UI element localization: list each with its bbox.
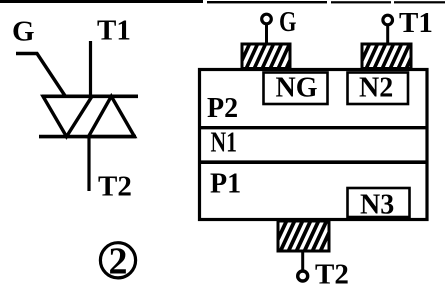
top rule line — [0, 0, 445, 3]
svg-text:P2: P2 — [207, 93, 238, 124]
svg-text:T2: T2 — [315, 259, 349, 291]
svg-text:G: G — [279, 6, 297, 38]
svg-text:T1: T1 — [97, 15, 131, 47]
metal contact T1 (hatched) — [358, 43, 418, 69]
terminal T1: circle + lead — [383, 15, 393, 45]
svg-text:N1: N1 — [211, 128, 238, 159]
junction line N1/P1 — [198, 160, 427, 164]
terminal T2: lead + circle — [298, 251, 308, 281]
triac left triangle — [43, 96, 92, 136]
svg-text:NG: NG — [276, 73, 318, 104]
metal contact G (hatched) — [238, 43, 298, 69]
structure outer box — [200, 70, 428, 220]
wire top bar — [42, 95, 138, 99]
svg-text:N3: N3 — [360, 190, 394, 221]
region N2 box — [348, 73, 409, 105]
junction line P2/N1 — [198, 126, 427, 129]
wire gate lead G — [16, 54, 66, 97]
svg-text:2: 2 — [109, 241, 128, 283]
triac right triangle — [89, 96, 135, 136]
region N3 box — [348, 188, 410, 217]
svg-text:T2: T2 — [98, 171, 132, 203]
metal contact T2 (hatched) — [272, 220, 335, 252]
svg-text:N2: N2 — [359, 73, 393, 104]
terminal G: circle + lead — [262, 14, 272, 45]
region NG box — [264, 73, 328, 105]
svg-text:G: G — [12, 16, 35, 48]
wire T2 lead — [87, 137, 90, 191]
wire bottom bar — [39, 135, 136, 139]
svg-text:T1: T1 — [399, 7, 433, 39]
wire T1 lead — [89, 41, 92, 97]
svg-text:P1: P1 — [210, 169, 241, 200]
figure number 2 circled — [100, 241, 135, 283]
